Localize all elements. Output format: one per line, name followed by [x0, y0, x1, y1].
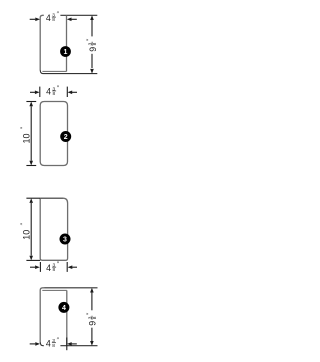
callout circle 4 [58, 302, 69, 313]
profile 3 outline [40, 198, 67, 260]
svg-text:4: 4 [46, 338, 51, 348]
dimension text 4 3/8 (section 1) [44, 11, 61, 23]
vertical dimension text 9 3/8 (section 1) [86, 36, 98, 53]
vertical dimension text 10 (section 3) [20, 222, 32, 239]
dimension 4 3/8 arrows (section 2) [30, 91, 77, 95]
dimension text 4 3/8 (section 3) [46, 261, 60, 273]
svg-text:3: 3 [63, 237, 67, 244]
dimension text 4 3/8 (section 2) [46, 85, 60, 97]
svg-text:4: 4 [62, 305, 66, 312]
svg-text:2: 2 [64, 134, 68, 141]
profile 2 outline (rounded rect) [40, 102, 67, 166]
profile 4 bottom-left corner and bottom extension line [40, 342, 97, 345]
callout circle 2 [60, 131, 71, 142]
dimension 4 3/8 right tick (section 4) [66, 338, 68, 351]
svg-text:10: 10 [21, 230, 31, 240]
profile 4 left edge and outer top-left corner [40, 288, 45, 343]
profile 4 inner top line [42, 289, 67, 291]
profile 1 inner bottom line [42, 70, 66, 72]
callout circle 1 [60, 46, 71, 57]
svg-text:8: 8 [92, 42, 98, 45]
vertical dimension text 10 (section 2) [20, 126, 32, 143]
vertical dimension line 10 (section 2) [29, 102, 33, 166]
svg-text:8: 8 [92, 316, 98, 319]
vertical dimension line 10 (section 3) [29, 198, 33, 260]
svg-text:9: 9 [88, 321, 98, 326]
svg-text:8: 8 [52, 17, 55, 23]
dimension text 4 3/8 (section 4) [44, 337, 61, 349]
svg-text:8: 8 [53, 91, 56, 97]
vertical dimension 10 extension lines (section 3) [26, 198, 40, 260]
svg-text:1: 1 [64, 49, 68, 56]
svg-text:8: 8 [52, 343, 55, 349]
svg-text:4: 4 [46, 263, 51, 273]
vertical dimension text 9 3/8 (section 4) [86, 310, 98, 327]
profile 4 outer top edge / extension line [44, 287, 98, 289]
svg-text:8: 8 [53, 267, 56, 273]
vertical dimension line 9 3/8 (section 4) [90, 288, 94, 346]
dimension 4 3/8 arrows (section 3) [30, 265, 77, 269]
profile 1 bottom-left corner and bottom extension line [40, 70, 97, 73]
svg-text:10: 10 [21, 133, 31, 143]
svg-text:9: 9 [88, 47, 98, 52]
vertical dimension line 9 3/8 (section 1) [90, 15, 94, 73]
profile 3 top edge [40, 197, 63, 199]
svg-text:4: 4 [46, 87, 51, 97]
dimension 4 3/8 ticks (section 3) [40, 262, 67, 272]
svg-text:4: 4 [46, 13, 51, 23]
vertical dimension 10 ticks (section 2) [26, 102, 36, 166]
profile 1 top edge / extension line [44, 14, 97, 16]
profile 1 left edge and top-left corner [40, 15, 45, 70]
callout circle 3 [60, 234, 71, 245]
profile 1 right edge [66, 15, 68, 71]
dimension 4 3/8 arrows (section 4) [30, 342, 77, 346]
dimension 4 3/8 ticks (section 2) [40, 87, 68, 97]
dimension 4 3/8 arrows (section 1) [30, 18, 77, 22]
profile 4 right edge [66, 290, 68, 345]
